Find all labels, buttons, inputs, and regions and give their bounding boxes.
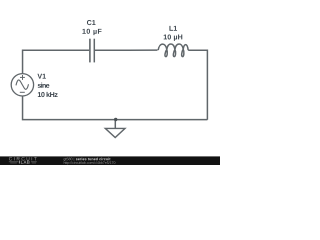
label sine	[38, 83, 50, 88]
label L1	[169, 26, 177, 31]
watermark line1 user	[64, 158, 74, 161]
logo LAB	[21, 161, 30, 164]
wire cap to inductor	[94, 49, 157, 51]
label C1	[87, 20, 96, 25]
label 10 uF	[82, 29, 101, 35]
junction dot	[114, 118, 117, 121]
CircuitLab logo LAB line	[9, 161, 18, 163]
watermark line2 url	[64, 161, 116, 164]
logo CIRCUIT	[9, 157, 37, 160]
watermark band	[0, 156, 220, 165]
wire inductor to right corner and down	[188, 50, 207, 119]
wire top-left horizontal	[23, 50, 90, 73]
wire bottom	[23, 96, 208, 120]
capacitor C1 plates	[89, 39, 91, 63]
sine wave	[16, 80, 29, 89]
plus sign	[20, 76, 25, 78]
minus sign	[20, 91, 25, 93]
label 10 kHz	[38, 92, 58, 97]
ground triangle	[105, 128, 125, 137]
inductor L1 coil	[158, 44, 188, 57]
voltage source V1 circle	[11, 74, 33, 96]
ground stub	[114, 120, 116, 129]
label 10 uH	[164, 34, 183, 40]
label V1	[37, 74, 45, 79]
watermark line1 title	[76, 158, 111, 161]
